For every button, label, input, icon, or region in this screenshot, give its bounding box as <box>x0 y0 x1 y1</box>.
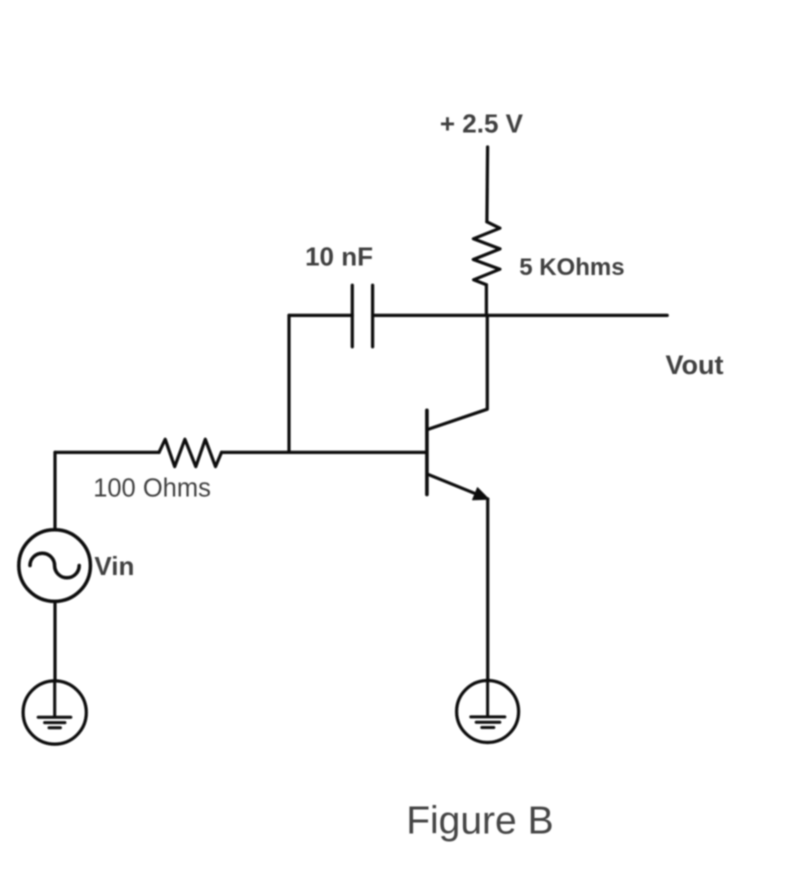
capacitor C1 10 nF plates <box>352 285 372 347</box>
ground G1 circle <box>23 681 86 744</box>
svg-text:5 KOhms: 5 KOhms <box>519 254 624 281</box>
wire R2 to base <box>222 451 427 454</box>
wire output node horizontal <box>373 314 668 317</box>
wire Vin to ground G1 <box>53 603 56 681</box>
svg-text:100 Ohms: 100 Ohms <box>93 475 211 503</box>
transistor Q1 collector <box>428 315 487 429</box>
ground G2 circle <box>457 681 519 743</box>
wire VCC to R1 <box>485 147 489 222</box>
wire capacitor left lead <box>289 314 352 317</box>
wire R1 to node <box>485 285 488 316</box>
svg-text:Vout: Vout <box>666 350 724 380</box>
transistor Q1 base bar <box>425 410 429 494</box>
wire left branch vertical <box>287 315 290 452</box>
wire emitter to ground G2 <box>486 499 489 681</box>
transistor Q1 emitter arrowhead <box>473 488 489 500</box>
svg-text:10 nF: 10 nF <box>305 241 373 271</box>
ground G1 symbol <box>38 681 71 728</box>
resistor R2 100 Ohms <box>159 439 222 466</box>
svg-text:Figure B: Figure B <box>406 800 553 843</box>
svg-text:+ 2.5 V: + 2.5 V <box>440 109 524 139</box>
ground G2 symbol <box>471 680 505 727</box>
transistor Q1 emitter <box>428 474 477 494</box>
svg-text:Vin: Vin <box>94 551 134 581</box>
source Vin circle <box>19 530 91 602</box>
resistor R1 5 KOhms <box>473 222 500 285</box>
wire source to R2 <box>55 451 159 454</box>
source Vin sine <box>30 553 79 578</box>
wire Vin to base wire <box>53 452 56 528</box>
